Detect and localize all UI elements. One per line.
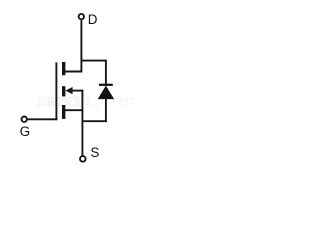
wire: drain stub into channel top bar	[65, 71, 83, 73]
terminal G circle	[22, 117, 27, 122]
gate vertical line	[55, 62, 57, 120]
wire: branch from drain vertical to diode cathode	[81, 60, 106, 62]
wire: diode cathode vertical	[105, 60, 107, 86]
body diode D1 cathode bar	[99, 84, 113, 86]
mosfet Q1 body arrowhead	[65, 87, 72, 94]
mosfet Q1 channel middle bar	[62, 86, 65, 96]
svg-text:D: D	[88, 12, 98, 27]
wire: drain vertical from D terminal down to drain stub	[80, 20, 82, 72]
wire: body arrow lead	[72, 90, 84, 92]
terminal D circle	[79, 14, 84, 19]
wire: gate lead from G terminal	[28, 118, 58, 120]
mosfet Q1 channel top bar	[62, 62, 65, 75]
mosfet Q1 channel bottom bar	[62, 105, 65, 119]
wire: diode anode horizontal to source	[82, 120, 107, 122]
wire: source vertical (body tie down to S terminal)	[81, 90, 83, 156]
svg-text:S: S	[90, 145, 99, 160]
body diode D1 triangle	[98, 86, 114, 100]
wire: source stub from channel bottom bar	[65, 109, 84, 111]
wire: diode anode vertical	[105, 98, 107, 122]
terminal S circle	[80, 156, 86, 162]
svg-text:G: G	[20, 124, 31, 139]
